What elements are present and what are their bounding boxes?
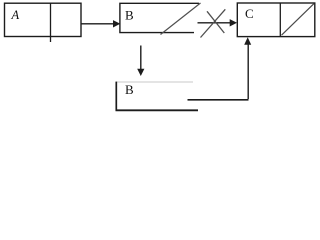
cross X over arrow (201, 9, 226, 37)
node B open box (120, 3, 199, 32)
wire arrow B down to new node (140, 46, 142, 70)
new node B faint top edge (116, 81, 193, 83)
node A divider (50, 3, 52, 42)
node C null slash (282, 4, 315, 36)
new node B left edge (115, 82, 117, 111)
node A box (5, 3, 82, 36)
node C box (237, 3, 314, 37)
wire new node B to C vertical (247, 44, 249, 99)
svg-text:B: B (125, 7, 134, 22)
wire new node B to C horizontal (188, 99, 249, 101)
node B pointer slash (161, 3, 201, 35)
svg-text:C: C (245, 6, 254, 21)
node C divider (279, 3, 281, 37)
svg-text:B: B (125, 82, 134, 97)
new node B bottom edge (116, 109, 199, 111)
wire arrow A to B (82, 23, 115, 25)
wire arrow B to C (198, 22, 231, 24)
svg-text:A: A (11, 8, 20, 22)
